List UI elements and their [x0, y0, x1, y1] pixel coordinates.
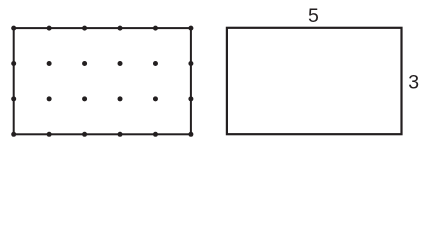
svg-text:5: 5 [308, 5, 319, 27]
labeled rectangle outline [227, 28, 402, 134]
geoboard rectangle outline [14, 28, 191, 134]
dot row 1 col 4 [118, 26, 123, 31]
dot row 2 col 6 [188, 61, 193, 66]
dot row 3 col 1 [11, 96, 16, 101]
dot row 1 col 6 [188, 26, 193, 31]
dot row 4 col 2 [47, 132, 52, 137]
dot row 2 col 2 [47, 61, 52, 66]
dot row 2 col 3 [82, 61, 87, 66]
dot row 1 col 1 [11, 26, 16, 31]
dot row 3 col 6 [188, 96, 193, 101]
svg-text:3: 3 [408, 72, 419, 94]
dot row 3 col 5 [153, 96, 158, 101]
dot row 4 col 6 [188, 132, 193, 137]
dot row 4 col 4 [118, 132, 123, 137]
dot row 4 col 5 [153, 132, 158, 137]
dot row 4 col 3 [82, 132, 87, 137]
dot row 3 col 2 [47, 96, 52, 101]
dot row 1 col 5 [153, 26, 158, 31]
dot row 3 col 4 [118, 96, 123, 101]
dot row 1 col 2 [47, 26, 52, 31]
dot row 3 col 3 [82, 96, 87, 101]
dot row 1 col 3 [82, 26, 87, 31]
dot row 4 col 1 [11, 132, 16, 137]
dot row 2 col 4 [118, 61, 123, 66]
dot row 2 col 5 [153, 61, 158, 66]
dot row 2 col 1 [11, 61, 16, 66]
